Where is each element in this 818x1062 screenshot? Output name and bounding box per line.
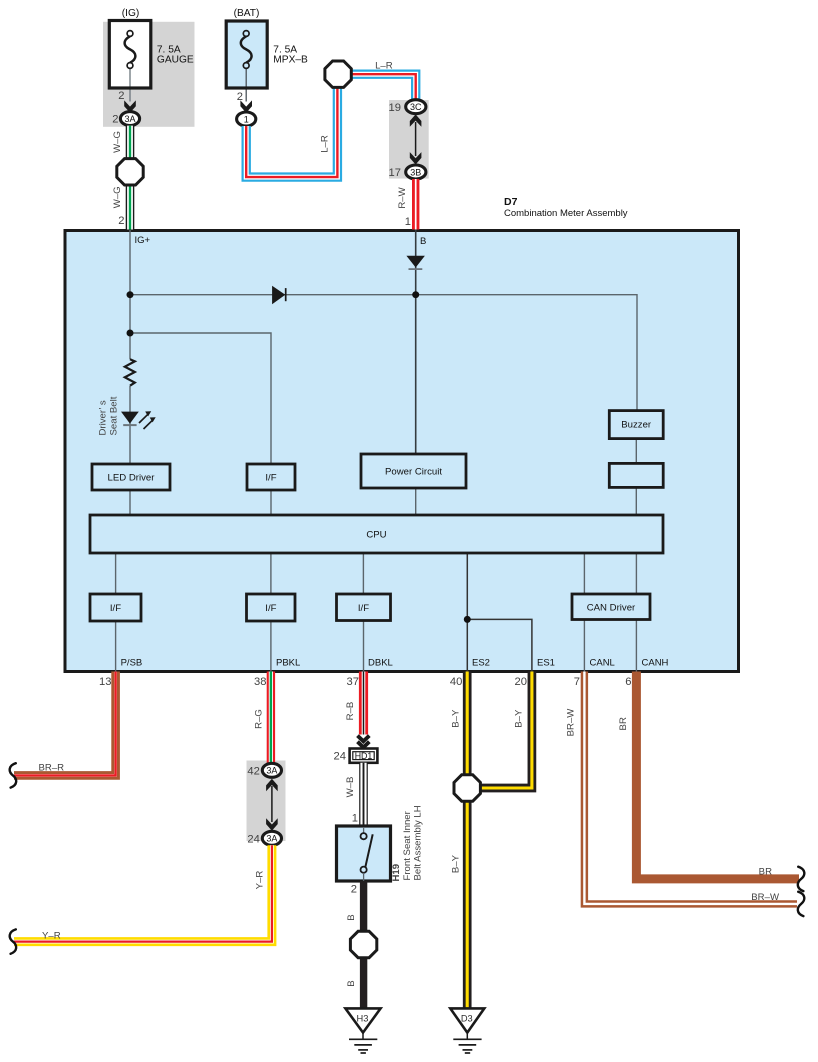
svg-text:I/F: I/F [265, 603, 276, 614]
connector oval 3A lower (24) [262, 831, 281, 845]
svg-text:19: 19 [389, 102, 401, 114]
wire L-R octagon to connector 3C [351, 74, 416, 100]
connector 3A/3A gray panel [247, 761, 286, 842]
svg-text:L–R: L–R [375, 61, 393, 72]
svg-text:Buzzer: Buzzer [621, 420, 652, 431]
wire R-B from DBKL [359, 672, 368, 735]
svg-text:Combination Meter Assembly: Combination Meter Assembly [504, 208, 628, 219]
block I/F upper [247, 464, 295, 490]
svg-text:1: 1 [352, 813, 358, 825]
svg-text:1: 1 [244, 114, 249, 124]
switch H19 Front Seat Inner Belt Assembly LH [337, 826, 391, 881]
wire I/F to CPU [270, 490, 272, 515]
splice octagon (L-R) [325, 61, 351, 87]
svg-text:Y–R: Y–R [254, 871, 265, 890]
svg-text:R–W: R–W [397, 186, 408, 208]
svg-text:ES2: ES2 [472, 658, 490, 669]
svg-text:BR: BR [618, 717, 629, 730]
block LED Driver [92, 464, 170, 490]
svg-text:BR–W: BR–W [751, 892, 780, 903]
svg-text:D7: D7 [504, 196, 518, 208]
connector HD1 [350, 749, 378, 763]
break symbol BR-R [10, 763, 17, 787]
svg-text:I/F: I/F [110, 603, 121, 614]
svg-text:24: 24 [247, 833, 259, 845]
svg-text:2: 2 [351, 884, 357, 896]
wire CPU to CAN Driver right [635, 553, 637, 594]
wire B (ground run) [360, 881, 367, 1009]
connector oval 3C [406, 100, 426, 114]
svg-text:W–G: W–G [112, 186, 123, 208]
svg-text:H3: H3 [357, 1014, 369, 1024]
wire CPU to I/F2 [270, 553, 272, 594]
break symbol BR-W [798, 892, 805, 916]
block Buzzer [609, 411, 663, 439]
arrow link line [415, 122, 417, 156]
wire LED Driver to CPU [129, 490, 131, 515]
junction node ES2/ES1 [464, 616, 471, 623]
ground H3 [345, 1008, 380, 1032]
svg-text:17: 17 [389, 167, 401, 179]
svg-text:B: B [420, 236, 426, 247]
wire blank box to CPU [635, 487, 637, 515]
svg-text:R–G: R–G [254, 709, 265, 729]
wire L-R battery run [246, 87, 337, 177]
svg-text:2: 2 [112, 114, 118, 126]
ground D3 [450, 1008, 484, 1032]
svg-text:24: 24 [334, 751, 346, 763]
block blank below buzzer [609, 463, 663, 487]
wire CPU to CAN Driver left [583, 553, 585, 594]
block CPU [90, 515, 663, 553]
wire I/F1 to pin P/SB [115, 621, 117, 672]
LED driver's seat belt indicator [121, 412, 139, 424]
junction node IG+/line A [127, 291, 134, 298]
diode on B line [406, 256, 425, 268]
block Power Circuit [361, 454, 466, 488]
wire LED to LED Driver [129, 386, 131, 464]
svg-text:B: B [346, 980, 357, 986]
wire BR from CANH [636, 672, 799, 879]
svg-text:GAUGE: GAUGE [157, 55, 194, 66]
svg-text:W–G: W–G [112, 131, 123, 153]
svg-text:6: 6 [625, 676, 631, 688]
svg-text:Seat Belt: Seat Belt [109, 396, 120, 435]
svg-text:LED Driver: LED Driver [108, 473, 156, 484]
svg-text:B–Y: B–Y [450, 854, 461, 873]
svg-text:BR–W: BR–W [565, 708, 576, 737]
junction node IG+/line B [127, 330, 134, 337]
wire W-G fuse to meter [126, 126, 135, 230]
svg-text:Y–R: Y–R [42, 931, 61, 942]
svg-text:2: 2 [118, 215, 124, 227]
svg-text:ES1: ES1 [537, 658, 555, 669]
wire R-G from PBKL [267, 672, 275, 764]
wire I/F2 to pin PBKL [270, 621, 272, 672]
arrow link line [271, 786, 273, 822]
svg-text:IG+: IG+ [135, 235, 151, 246]
arrow up to 3C [410, 114, 422, 126]
svg-text:PBKL: PBKL [276, 658, 300, 669]
arrow into connector 3A [124, 100, 136, 112]
svg-text:42: 42 [247, 765, 259, 777]
svg-text:I/F: I/F [358, 603, 369, 614]
combination meter assembly D7 box [65, 231, 739, 672]
junction node B/line A [412, 291, 419, 298]
svg-text:I/F: I/F [265, 473, 276, 484]
splice octagon (B-Y) [454, 775, 480, 801]
svg-text:3A: 3A [266, 766, 277, 776]
svg-text:3B: 3B [410, 167, 421, 177]
fuse (IG) gray panel [103, 22, 195, 127]
svg-text:38: 38 [254, 676, 266, 688]
svg-text:CANH: CANH [642, 658, 669, 669]
svg-text:R–B: R–B [345, 702, 356, 721]
svg-text:Power Circuit: Power Circuit [385, 467, 442, 478]
fuse (BAT) 7.5A MPX-B [226, 21, 267, 88]
wire I/F3 to pin DBKL [363, 621, 365, 672]
connector 3C/3B gray panel [389, 100, 429, 179]
svg-text:2: 2 [118, 90, 124, 102]
break symbol BR [798, 867, 805, 891]
wire B vertical (interior) [415, 230, 417, 454]
svg-text:(BAT): (BAT) [234, 8, 260, 19]
connector oval 3A upper (42) [262, 763, 281, 777]
block CAN Driver [572, 594, 650, 620]
svg-text:BR: BR [759, 866, 772, 877]
svg-text:40: 40 [450, 676, 462, 688]
svg-text:37: 37 [347, 676, 359, 688]
svg-text:HD1: HD1 [355, 751, 373, 761]
wire IG+ vertical (interior) [129, 230, 131, 359]
wire Y-R from 3A [14, 845, 272, 941]
svg-text:(IG): (IG) [122, 8, 140, 19]
svg-text:B–Y: B–Y [514, 709, 525, 728]
svg-text:D3: D3 [461, 1014, 473, 1024]
svg-text:13: 13 [99, 676, 111, 688]
block I/F lower 2 [247, 594, 296, 621]
svg-text:7: 7 [574, 676, 580, 688]
svg-text:BR–R: BR–R [39, 762, 65, 773]
block I/F lower 3 [337, 594, 391, 621]
arrow down to 3A [266, 818, 278, 830]
wire Power Circuit to CPU [415, 488, 417, 515]
svg-text:3A: 3A [266, 834, 277, 844]
wire branch to pin ES1 [467, 619, 532, 671]
wire CPU to pin ES2 [466, 553, 468, 672]
svg-text:1: 1 [405, 216, 411, 228]
wire CPU to I/F1 [115, 553, 117, 594]
break symbol Y-R [10, 929, 17, 953]
splice octagon (B) [350, 931, 376, 957]
svg-text:CPU: CPU [366, 530, 386, 541]
svg-text:B–Y: B–Y [450, 709, 461, 728]
svg-text:CAN Driver: CAN Driver [587, 603, 636, 614]
svg-text:L–R: L–R [319, 135, 330, 153]
diode on line A [272, 286, 285, 305]
wire W-B HD1 to H19 [359, 763, 368, 826]
connector oval 3A (IG) [120, 112, 139, 126]
svg-text:Driver’ s: Driver’ s [98, 400, 109, 435]
svg-text:P/SB: P/SB [121, 658, 143, 669]
arrow into connector 1 [240, 100, 252, 112]
svg-text:Belt Assembly LH: Belt Assembly LH [413, 805, 424, 880]
splice octagon (W-G) [117, 159, 143, 185]
wire BR-R from P/SB [14, 672, 116, 776]
wire Buzzer to blank box [635, 439, 637, 464]
svg-text:B: B [346, 914, 357, 920]
double arrow into HD1 [358, 736, 370, 742]
wire CAN Driver to pin CANH [635, 620, 637, 672]
svg-text:3A: 3A [124, 114, 135, 124]
wire BR-W from CANL [584, 672, 797, 904]
svg-text:20: 20 [515, 676, 527, 688]
wire CPU to I/F3 [362, 553, 364, 594]
arrow down to 3B [410, 152, 422, 164]
wire B-Y from ES2 to ground [463, 672, 472, 1009]
svg-text:Front Seat Inner: Front Seat Inner [402, 810, 413, 880]
svg-text:2: 2 [237, 91, 243, 103]
connector oval 3B [406, 165, 426, 179]
svg-text:H19: H19 [391, 864, 402, 882]
wire B-Y branch from ES1 [472, 672, 532, 789]
block I/F lower 1 [90, 594, 141, 621]
wire bus line A horizontal to buzzer [130, 295, 637, 411]
arrow up to 3A [266, 779, 278, 791]
resistor (seat belt LED series) [125, 359, 135, 385]
wire line B to I/F [130, 333, 271, 464]
svg-text:MPX–B: MPX–B [273, 55, 308, 66]
fuse (IG) 7.5A GAUGE [109, 21, 151, 89]
svg-text:DBKL: DBKL [368, 658, 393, 669]
svg-text:3C: 3C [410, 102, 422, 112]
svg-text:W–B: W–B [345, 777, 356, 798]
svg-text:CANL: CANL [590, 658, 615, 669]
wire R-W connector to meter [412, 179, 419, 230]
connector oval 1 (BAT) [237, 112, 256, 126]
wire CAN Driver to pin CANL [583, 620, 585, 672]
